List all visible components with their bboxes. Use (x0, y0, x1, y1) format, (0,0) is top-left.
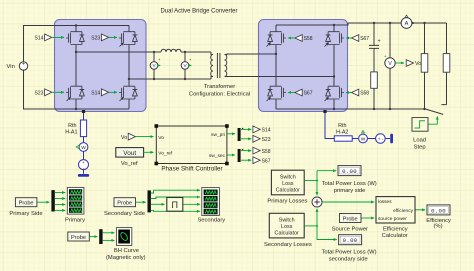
svg-text:efficiency: efficiency (393, 208, 414, 214)
svg-text:S14: S14 (262, 128, 271, 134)
svg-text:+: + (378, 136, 381, 141)
svg-text:losses: losses (378, 199, 392, 205)
svg-text:S67: S67 (262, 158, 271, 164)
svg-text:Calculator: Calculator (276, 187, 300, 193)
svg-text:Primary: Primary (65, 217, 85, 223)
svg-text:Vo: Vo (158, 135, 164, 141)
svg-text:sw_pri: sw_pri (211, 132, 225, 138)
svg-text:S58: S58 (360, 91, 369, 97)
svg-text:Loss: Loss (281, 224, 293, 230)
svg-text:Step: Step (414, 144, 426, 150)
svg-text:Switch: Switch (280, 174, 296, 180)
svg-text:W: W (81, 145, 86, 151)
svg-text:BH Curve: BH Curve (114, 248, 139, 254)
svg-text:W: W (361, 137, 366, 143)
svg-text:Vo_ref: Vo_ref (121, 161, 138, 167)
svg-text:Total Power Loss (W): Total Power Loss (W) (321, 249, 376, 255)
svg-text:S58: S58 (262, 149, 271, 155)
svg-text:Source Power: Source Power (332, 226, 368, 232)
svg-text:Vo_ref: Vo_ref (158, 150, 173, 156)
svg-text:sw_sec: sw_sec (209, 154, 226, 159)
svg-text:S67: S67 (360, 36, 369, 42)
svg-text:+: + (378, 38, 381, 44)
svg-text:H-A2: H-A2 (336, 130, 348, 136)
svg-text:Efficiency: Efficiency (383, 226, 408, 232)
svg-text:S58: S58 (304, 36, 313, 42)
svg-text:S14: S14 (34, 36, 43, 42)
svg-text:Load: Load (413, 137, 426, 143)
svg-text:S67: S67 (304, 91, 313, 97)
svg-text:Dual Active Bridge Converter: Dual Active Bridge Converter (160, 8, 237, 14)
svg-text:V: V (388, 61, 392, 67)
svg-text:Transformer: Transformer (204, 84, 235, 90)
svg-text:S23: S23 (91, 36, 100, 42)
svg-text:Π: Π (172, 200, 179, 210)
svg-text:Secondary Side: Secondary Side (104, 211, 145, 217)
svg-text:S23: S23 (262, 137, 271, 143)
svg-text:Primary Losses: Primary Losses (267, 199, 307, 205)
svg-text:-: - (23, 67, 25, 73)
svg-text:Calculator: Calculator (382, 233, 408, 239)
svg-text:Total Power Loss (W): Total Power Loss (W) (322, 181, 377, 187)
svg-text:Vo: Vo (415, 61, 421, 67)
svg-text:Secondary Losses: Secondary Losses (264, 242, 312, 248)
svg-text:+: + (82, 160, 85, 165)
svg-text:Configuration: Electrical: Configuration: Electrical (189, 91, 250, 97)
svg-text:Vout: Vout (123, 150, 136, 157)
svg-text:H-A1: H-A1 (65, 130, 77, 136)
svg-text:source power: source power (378, 216, 407, 222)
svg-text:Switch: Switch (279, 218, 295, 224)
svg-text:Rth: Rth (338, 123, 346, 129)
svg-text:primary side: primary side (334, 188, 366, 194)
svg-text:(Magnetic only): (Magnetic only) (106, 255, 146, 261)
svg-text:S23: S23 (34, 91, 43, 97)
svg-text:Rth: Rth (68, 123, 76, 129)
svg-text:(%): (%) (433, 224, 442, 230)
svg-text:Vo: Vo (121, 135, 127, 141)
svg-text:Phase Shift Controller: Phase Shift Controller (161, 165, 222, 172)
svg-text:Vin: Vin (7, 64, 15, 70)
svg-text:Loss: Loss (282, 181, 294, 187)
svg-text:secondary side: secondary side (329, 256, 368, 262)
svg-text:Calculator: Calculator (275, 231, 299, 237)
svg-text:Primary Side: Primary Side (9, 211, 42, 217)
svg-text:A: A (405, 21, 409, 27)
svg-text:S14: S14 (91, 91, 100, 97)
svg-text:Secondary: Secondary (197, 218, 225, 224)
